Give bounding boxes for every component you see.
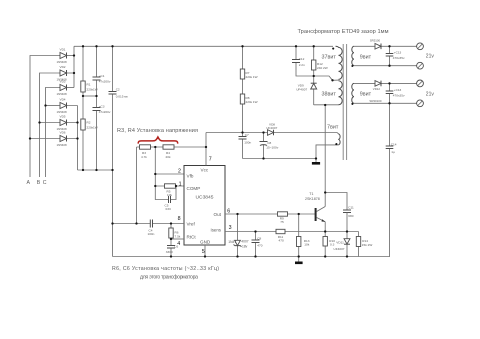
svg-text:240 2W: 240 2W: [317, 66, 328, 70]
svg-text:C12: C12: [299, 57, 305, 61]
wire R3 left leg down to Vref line: [136, 147, 138, 224]
svg-text:SR5100: SR5100: [370, 38, 381, 42]
wire Vfb node rail: [154, 147, 156, 186]
transformer primary winding 37 turns: [322, 46, 343, 79]
wire R6 C6 rail: [170, 224, 172, 257]
svg-text:1: 1: [179, 181, 182, 187]
wire Vcc supply line: [206, 133, 338, 134]
resistor R13: [297, 214, 310, 257]
svg-text:1N5408: 1N5408: [57, 92, 68, 96]
label 21v lower: [426, 91, 435, 97]
wire snubber R12 rail: [313, 46, 315, 76]
svg-text:1N5408: 1N5408: [57, 110, 68, 114]
svg-text:38вит: 38вит: [322, 91, 337, 97]
diode VD1: [57, 48, 68, 64]
svg-text:VD2: VD2: [60, 65, 66, 69]
svg-text:Vref: Vref: [187, 221, 196, 226]
wire X-cap rail full height: [112, 46, 114, 256]
diode secondary rectifier upper: [370, 38, 381, 49]
wire C8 filter rail: [255, 232, 257, 257]
wire pin8 Vref line: [113, 223, 185, 225]
svg-text:UF4007: UF4007: [334, 247, 345, 251]
transformer secondary winding 9 turns lower: [352, 83, 382, 103]
wire phase C input: [46, 88, 60, 178]
svg-text:220к1W: 220к1W: [87, 88, 98, 92]
ground aux: [312, 159, 320, 165]
svg-text:B: B: [37, 180, 41, 186]
transformer primary winding 38 turns: [322, 81, 343, 105]
svg-text:UC3845: UC3845: [196, 194, 214, 200]
IC U1 UC3845 body: [184, 166, 225, 246]
svg-text:470: 470: [279, 239, 284, 243]
wire bleeder rail: [82, 46, 84, 170]
pin number 7: [209, 157, 212, 163]
svg-text:5: 5: [202, 249, 205, 255]
svg-text:C: C: [43, 180, 47, 186]
wire VD6 output lead: [59, 138, 78, 140]
capacitor C2: [109, 88, 129, 99]
resistor R4: [163, 145, 174, 159]
wire secondary2 top lead: [354, 82, 417, 84]
node A label: [27, 180, 31, 186]
svg-text:+C1: +C1: [99, 74, 105, 78]
diode VD3: [57, 80, 68, 96]
transformer aux winding 7 turns: [327, 125, 340, 145]
svg-text:1N5408: 1N5408: [57, 60, 68, 64]
capacitor C4: [148, 220, 155, 237]
wire pin2 Vfb stub: [155, 173, 184, 175]
svg-text:2: 2: [178, 169, 181, 175]
capacitor C8 filter: [252, 236, 263, 247]
svg-text:R1: R1: [87, 83, 91, 87]
transistor T1: [305, 192, 325, 232]
svg-text:A: A: [27, 180, 31, 186]
resistor R8: [240, 94, 257, 104]
svg-text:COMP: COMP: [187, 186, 201, 191]
svg-text:Vcc: Vcc: [201, 167, 209, 172]
svg-text:100n: 100n: [244, 140, 251, 144]
svg-text:C8: C8: [257, 236, 261, 240]
svg-text:3: 3: [229, 225, 232, 231]
svg-text:1N47: 1N47: [228, 240, 236, 244]
wire aux return line: [243, 158, 317, 160]
wire secondary1 bottom lead: [354, 65, 417, 67]
wire VD5 output lead: [59, 122, 78, 124]
node C label: [43, 180, 47, 186]
svg-text:+C3: +C3: [99, 105, 105, 109]
wire pin5 GND stub: [204, 245, 206, 257]
svg-text:+C13: +C13: [394, 88, 402, 92]
resistor R9: [278, 212, 288, 224]
svg-text:220к1W: 220к1W: [87, 126, 98, 130]
transformer secondary winding 9 turns upper: [352, 46, 372, 65]
red brace: [138, 137, 178, 144]
node B label: [37, 180, 41, 186]
pin number 5: [202, 249, 205, 255]
svg-text:VD6: VD6: [60, 131, 66, 135]
zener VD10: [228, 240, 249, 249]
svg-text:Out: Out: [214, 212, 222, 217]
wire pin6 Out gate line: [225, 213, 315, 215]
wire C8 aux rail: [263, 133, 265, 159]
diode VD11: [334, 232, 351, 257]
resistor R1: [81, 81, 98, 92]
diode secondary rectifier lower: [373, 81, 381, 91]
capacitor C12: [292, 57, 305, 67]
wire C5 compensation loop: [155, 186, 176, 200]
wire startup rail R7 R8: [242, 46, 244, 158]
pin number 6: [227, 208, 230, 214]
wire VD3 output lead: [59, 87, 74, 89]
capacitor C14: [386, 142, 397, 154]
svg-text:9вит: 9вит: [360, 55, 372, 61]
svg-text:3300: 3300: [166, 250, 173, 254]
diode VD8: [266, 122, 277, 135]
svg-text:470x35v: 470x35v: [393, 93, 405, 97]
svg-text:VD4: VD4: [60, 98, 66, 102]
pin number 2: [178, 169, 181, 175]
wire secondary return rail: [389, 103, 391, 256]
svg-text:18v: 18v: [242, 244, 248, 248]
wire bulk cap rail: [96, 46, 98, 170]
wire secondary2 bottom lead: [354, 102, 417, 104]
svg-text:10k: 10k: [304, 242, 309, 246]
diode VD2: [57, 65, 68, 81]
resistor R14: [356, 232, 372, 257]
wire phase A input: [30, 56, 59, 178]
svg-text:VD3: VD3: [60, 80, 66, 84]
svg-text:15k 2W: 15k 2W: [362, 243, 373, 247]
svg-text:47x200v: 47x200v: [99, 110, 111, 114]
terminal output2 plus: [417, 80, 424, 87]
wire snubber C12 rail: [296, 46, 314, 76]
svg-text:37вит: 37вит: [322, 54, 337, 60]
svg-text:R3, R4 Установка напряжения: R3, R4 Установка напряжения: [117, 128, 198, 134]
svg-text:220к 1W: 220к 1W: [246, 100, 258, 104]
wire VD2 output lead: [59, 72, 74, 74]
svg-text:7: 7: [209, 157, 212, 163]
svg-text:Isens: Isens: [211, 227, 222, 232]
red annotation text R3 R4: [117, 128, 198, 134]
capacitor C11: [343, 205, 354, 231]
svg-text:15~100v: 15~100v: [266, 146, 278, 150]
wire 7 turns return and ground node: [316, 145, 338, 159]
wire B to VD5: [40, 122, 60, 124]
wire bottom ground bus: [113, 256, 391, 258]
svg-text:Трансформатор ETD49 зазор 1мм: Трансформатор ETD49 зазор 1мм: [298, 29, 389, 35]
resistor R2: [81, 119, 98, 130]
wire collector to C11: [325, 193, 347, 211]
wire secondary1 top lead: [354, 45, 417, 47]
wire pin1 COMP stub: [155, 185, 184, 187]
diode VD5: [57, 115, 68, 131]
capacitor C13 upper: [386, 46, 405, 65]
svg-text:47x200v: 47x200v: [99, 79, 111, 83]
transformer core: [343, 44, 346, 160]
svg-text:Vfb: Vfb: [187, 173, 194, 178]
svg-text:RtCt: RtCt: [187, 234, 197, 239]
wire pin7 Vcc rail: [205, 133, 207, 166]
wire primary bottom lead: [314, 104, 339, 106]
pin number 1: [179, 181, 182, 187]
svg-text:470x35v: 470x35v: [393, 56, 405, 60]
diode VD6: [57, 131, 68, 147]
wire A to VD6: [30, 138, 59, 140]
svg-text:SR30100: SR30100: [369, 99, 381, 103]
resistor R3: [140, 145, 151, 159]
svg-text:10k: 10k: [167, 193, 172, 197]
svg-text:C8: C8: [267, 141, 271, 145]
svg-text:2.2n: 2.2n: [299, 63, 305, 67]
svg-text:C14: C14: [391, 142, 397, 146]
svg-text:100n: 100n: [148, 232, 155, 236]
wire cathode rail upper diodes: [73, 46, 75, 87]
capacitor C7: [239, 133, 252, 144]
wire C to VD4: [46, 105, 60, 107]
wire divider midpoint link: [83, 95, 97, 97]
svg-text:+C13: +C13: [394, 51, 402, 55]
svg-text:VD1: VD1: [60, 48, 66, 52]
svg-text:7вит: 7вит: [327, 125, 339, 131]
svg-text:VD5: VD5: [60, 115, 66, 119]
svg-text:4007: 4007: [241, 240, 249, 244]
wire feedback divider line: [137, 146, 207, 148]
svg-text:75: 75: [280, 220, 284, 224]
ground main: [295, 257, 303, 265]
svg-text:VD12: VD12: [373, 87, 381, 91]
svg-text:220к 1W: 220к 1W: [246, 75, 258, 79]
terminal output2 minus: [417, 100, 424, 107]
svg-text:0.3: 0.3: [330, 242, 335, 246]
svg-text:6: 6: [227, 208, 230, 214]
svg-text:C2: C2: [116, 88, 120, 92]
capacitor C1: [93, 74, 111, 83]
svg-text:C11: C11: [348, 205, 354, 209]
svg-text:20k: 20k: [166, 155, 171, 159]
wire anode rail lower diodes: [77, 106, 79, 171]
svg-text:9вит: 9вит: [360, 92, 372, 98]
resistor R6: [169, 228, 181, 238]
capacitor C8 aux: [260, 141, 279, 150]
capacitor C5: [165, 196, 171, 211]
svg-text:033: 033: [166, 207, 171, 211]
svg-text:для этого трансформатора: для этого трансформатора: [140, 275, 198, 281]
svg-text:1µ: 1µ: [391, 150, 395, 154]
svg-text:680: 680: [348, 214, 353, 218]
svg-text:21v: 21v: [426, 91, 435, 97]
pin number 8: [178, 216, 181, 222]
wire phase B input: [40, 73, 60, 177]
annotation frequency text line2: [140, 275, 198, 281]
wire VD4 output lead: [59, 105, 78, 107]
diode VD9: [296, 76, 317, 105]
svg-text:R6, С6 Установка частоты (~32.: R6, С6 Установка частоты (~32..33 кГц): [112, 266, 219, 272]
wire drain line: [324, 105, 326, 207]
terminal output1 minus: [417, 62, 424, 69]
wire pin4 RtCt stub: [171, 238, 184, 240]
capacitor C13 lower: [386, 83, 405, 103]
label 21v upper: [426, 54, 435, 60]
svg-text:T1: T1: [309, 192, 313, 196]
annotation frequency text line1: [112, 266, 219, 272]
diode VD4: [57, 98, 68, 114]
wire pin3 Isens current sense line: [225, 231, 359, 233]
capacitor C6: [166, 245, 179, 254]
svg-text:470: 470: [257, 244, 262, 248]
svg-text:R2: R2: [87, 121, 91, 125]
pin number 4: [177, 241, 180, 247]
svg-text:UF4007: UF4007: [296, 87, 307, 91]
svg-text:GND: GND: [200, 239, 211, 244]
transformer title: [298, 29, 389, 35]
pin number 3: [229, 225, 232, 231]
resistor R11: [276, 229, 285, 242]
wire VD1 output lead: [59, 55, 74, 57]
resistor R7: [240, 69, 257, 79]
resistor R12: [312, 60, 328, 70]
svg-text:1N5408: 1N5408: [57, 143, 68, 147]
terminal output1 plus: [417, 43, 424, 50]
svg-text:C7: C7: [245, 133, 249, 137]
resistor R5: [165, 184, 176, 197]
wire clamp tap link: [314, 76, 339, 80]
svg-text:C6: C6: [174, 245, 178, 249]
wire top +DC bus: [74, 45, 333, 47]
svg-text:7.5k: 7.5k: [175, 234, 181, 238]
svg-text:UF4007: UF4007: [266, 126, 277, 130]
svg-text:VD11: VD11: [336, 241, 344, 245]
svg-text:4.7k: 4.7k: [141, 155, 147, 159]
wire rectifier negative bus: [78, 169, 113, 171]
svg-text:8: 8: [178, 216, 181, 222]
svg-text:21v: 21v: [426, 54, 435, 60]
capacitor C3: [93, 105, 111, 114]
svg-text:0.015 мк: 0.015 мк: [116, 95, 129, 99]
wire zener rail: [237, 214, 239, 257]
svg-text:2SK1878: 2SK1878: [305, 197, 320, 201]
resistor R10: [323, 232, 335, 257]
